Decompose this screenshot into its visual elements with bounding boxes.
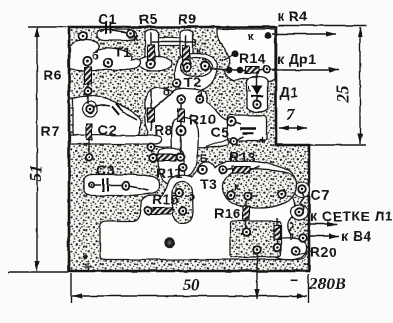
- wire R6 top lead: [87, 61, 89, 67]
- ext line top-left: [28, 26, 67, 28]
- resistor R10 body: [178, 109, 185, 122]
- leader line R20: [295, 251, 311, 255]
- svg-text:Б: Б: [200, 153, 208, 165]
- svg-text:к: к: [234, 181, 240, 193]
- pad R15 left: [145, 207, 153, 215]
- wire diode bottom lead: [256, 96, 258, 101]
- pad island S3 mid: [244, 192, 252, 200]
- pad R20 bottom: [273, 244, 281, 252]
- pad R11 right: [177, 153, 185, 161]
- pad R8 bottom area: [147, 143, 154, 150]
- wire R8 bottom lead: [150, 122, 152, 131]
- wire C3 left: [94, 184, 101, 186]
- pad R11 left: [149, 154, 157, 162]
- etched white around R11: [158, 149, 184, 185]
- wire link R5-R9 tops: [152, 41, 196, 43]
- ext line notch bottom: [310, 144, 366, 146]
- pad C3 right: [122, 182, 130, 190]
- svg-text:50: 50: [183, 275, 201, 294]
- right dim line 25: [359, 27, 361, 144]
- pad R6 bottom: [84, 87, 91, 94]
- pad R10 bottom ringed: [176, 126, 185, 135]
- pad bottom white oval: [292, 247, 300, 255]
- ext line bottom right vert: [308, 274, 310, 303]
- plus mark bottom-left: [84, 262, 93, 271]
- pad T2 base: [201, 62, 209, 70]
- pad island S3 right: [278, 190, 285, 197]
- wire C2 left: [92, 105, 110, 108]
- etched white surround of R9: [180, 30, 193, 58]
- svg-text:R20: R20: [310, 244, 337, 260]
- svg-text:к: к: [196, 45, 202, 57]
- resistor R5 body: [148, 45, 155, 60]
- leader line C5: [206, 138, 230, 147]
- svg-text:C3: C3: [96, 162, 115, 178]
- wire R13 right into island: [250, 166, 260, 170]
- pad R14 right: [263, 65, 270, 72]
- resistor R13 body: [232, 167, 250, 174]
- wire C9 top pad: [235, 122, 241, 124]
- etched white tall oval (R10 to T3 column): [172, 118, 199, 177]
- svg-text:к: к: [248, 31, 254, 43]
- svg-text:э: э: [197, 88, 203, 100]
- wire R14 row: [231, 69, 265, 70]
- wire R10 leads: [180, 101, 182, 127]
- svg-text:51: 51: [26, 165, 45, 182]
- ext line top-right: [278, 25, 366, 27]
- pad center dots: [82, 32, 305, 252]
- PCB board outline with stipple copper fill: [69, 27, 309, 271]
- pad island S2 top: [176, 189, 184, 197]
- svg-text:R16: R16: [214, 205, 241, 221]
- capacitor C1 plates: [106, 22, 111, 34]
- pads: white ring with dot: [79, 30, 307, 255]
- wire R10 pad down to R11 pad: [180, 134, 182, 153]
- svg-text:б: б: [92, 50, 99, 62]
- big etched white bottom region: [100, 161, 306, 259]
- etched white horizontal strip mid-left: [70, 135, 162, 144]
- pad C2 left: [86, 105, 94, 113]
- arrow k SETKE: [305, 223, 337, 225]
- resistor R20 body: [274, 225, 280, 239]
- svg-text:к В4: к В4: [341, 228, 372, 244]
- pad T1 e: [83, 57, 91, 65]
- wire pad k to R14 area: [224, 55, 233, 60]
- etched white oval right edge (C7 pad): [294, 183, 310, 198]
- svg-text:C2: C2: [98, 122, 117, 138]
- left dim line 51: [36, 28, 38, 271]
- svg-text:−: −: [290, 272, 299, 288]
- wire R14 to board edge: [268, 68, 276, 70]
- plus mark of C9: [259, 137, 265, 143]
- svg-text:R8: R8: [154, 122, 173, 138]
- wire R16 top lead: [245, 201, 247, 207]
- wires layer: [88, 30, 311, 272]
- pad kB4 right: [299, 234, 307, 242]
- pad wire-down: [253, 246, 261, 254]
- resistor R11 body: [157, 155, 176, 162]
- pad grid: [296, 208, 304, 216]
- ext line bottom-left: [8, 271, 68, 273]
- svg-text:C1: C1: [98, 11, 117, 27]
- pad C2 body bottom: [85, 153, 92, 160]
- etched white oval right edge (grid pad): [291, 205, 308, 220]
- etched white oval under R9: [179, 56, 202, 71]
- svg-text:25: 25: [333, 85, 352, 104]
- stippled rectangle island (R16/R20 area): [230, 221, 281, 257]
- etched white surround of R5: [145, 30, 159, 62]
- svg-text:б: б: [163, 86, 170, 98]
- etched white S-ribbon around T1: [70, 39, 141, 70]
- etched white region top-right (R14 area): [217, 29, 275, 82]
- pad C9 top: [227, 117, 235, 125]
- svg-text:T1: T1: [114, 44, 131, 60]
- etched white blob around T2: [174, 54, 217, 92]
- wire C1 right to pad: [112, 31, 127, 34]
- pad below R11: [179, 164, 186, 171]
- wire C1 left: [100, 30, 104, 32]
- wire R5 top lead: [150, 32, 152, 45]
- resistor R15 body: [152, 208, 173, 215]
- pad T2 k: [183, 64, 191, 72]
- svg-text:Д1: Д1: [280, 84, 299, 100]
- pad diode bottom: [253, 101, 261, 109]
- wire T2 collector to R14 row: [210, 68, 226, 70]
- pad top-left: [79, 32, 87, 40]
- svg-text:к Др1: к Др1: [277, 51, 317, 67]
- resistor R14 body: [246, 67, 259, 74]
- svg-text:к R4: к R4: [277, 8, 308, 24]
- pad R10 top row right: [196, 95, 204, 103]
- pad R13 left: [219, 166, 227, 174]
- pad C1 right: [127, 30, 135, 38]
- arrow k Dr1: [272, 69, 339, 71]
- kidney copper island (T3 collector): [222, 169, 296, 209]
- svg-text:280В: 280В: [308, 274, 346, 293]
- svg-text:T3: T3: [200, 176, 217, 192]
- ext line bottom left vert: [70, 273, 72, 303]
- wire diagonal R8 to T2: [152, 91, 174, 110]
- arrowheads: [34, 27, 362, 299]
- capacitor C9 plates: [240, 129, 256, 134]
- pad T1 k: [104, 59, 112, 67]
- dark pads: [226, 33, 272, 74]
- pad T3 base: [198, 166, 207, 175]
- wire R20 leads: [276, 218, 278, 244]
- small dark pad bottom-left: [83, 255, 88, 260]
- dimension drawing: [8, 26, 366, 304]
- bottom dim line 50: [72, 295, 307, 297]
- etched white strip under top edge (C1 area): [97, 30, 137, 41]
- tall stippled oval island below T3: [173, 182, 194, 224]
- wire R6 bottom lead: [87, 84, 89, 104]
- pad C9 bottom: [230, 137, 237, 144]
- svg-text:C5: C5: [211, 124, 230, 140]
- svg-text:к СЕТКЕ Л1: к СЕТКЕ Л1: [310, 208, 393, 224]
- svg-text:R7: R7: [41, 123, 60, 139]
- etched white band around C2: [73, 96, 141, 136]
- wire C2 right: [122, 112, 137, 120]
- dim numbers: [26, 85, 352, 294]
- pad T2 e: [173, 79, 181, 87]
- pad R10 top row left: [177, 95, 185, 103]
- etched white oval bottom-right (R20 pads): [271, 238, 306, 260]
- etched white region around R8 R10 C5 labels: [145, 88, 228, 148]
- svg-text:R13: R13: [229, 149, 256, 165]
- arrow k R4: [272, 33, 336, 35]
- diode D1: [252, 85, 263, 95]
- mounting hole: [164, 238, 174, 248]
- wire C3 right to pad: [109, 184, 123, 186]
- squiggle lower right: [289, 222, 293, 240]
- pad island S3 left: [227, 191, 235, 199]
- resistor R16 body: [243, 206, 250, 220]
- pad island S2 bottom: [179, 207, 187, 215]
- pad R16 bottom: [243, 229, 251, 237]
- arrow k B4: [308, 235, 339, 237]
- T2 transistor body island: [180, 58, 212, 77]
- pad R5 bottom: [147, 60, 155, 68]
- svg-text:C7: C7: [311, 187, 330, 203]
- pad R9 bottom: [182, 59, 190, 67]
- etched white oval under R5: [139, 56, 172, 71]
- pad C3 left small: [89, 182, 94, 187]
- squiggle jumper C7: [300, 194, 304, 212]
- wire R9 top lead: [185, 35, 187, 46]
- resistor R8 body: [148, 108, 155, 122]
- etched white channel linking R5-R9 tops: [150, 38, 196, 47]
- etched white capsule around diode pad: [247, 77, 268, 113]
- wire diode top lead: [256, 70, 258, 85]
- svg-text:R15: R15: [152, 191, 179, 207]
- resistor R6 body: [85, 67, 92, 84]
- wire C3 pad to R11 area: [129, 186, 148, 190]
- svg-text:R14: R14: [239, 50, 266, 66]
- stippled copper islands inside white areas: [173, 58, 297, 258]
- svg-text:R6: R6: [43, 67, 62, 83]
- svg-text:R5: R5: [139, 11, 158, 27]
- etched white halo around C2 left pad: [83, 102, 98, 117]
- wire C9 bottom pad: [237, 137, 244, 140]
- etched white C9 rectangle: [228, 115, 267, 141]
- wire down from board: [256, 272, 258, 299]
- pad C7: [298, 186, 306, 194]
- capacitor C2 body (vertical): [86, 124, 92, 140]
- capacitor C3 plates: [103, 179, 108, 192]
- wire R13 left: [226, 169, 232, 170]
- svg-text:R9: R9: [178, 11, 197, 27]
- wire R16 bottom lead: [245, 219, 247, 229]
- etched white channel around C3: [84, 174, 160, 195]
- svg-text:э: э: [189, 191, 195, 203]
- wire R8 top lead: [150, 90, 152, 108]
- svg-text:к: к: [133, 32, 139, 44]
- svg-text:R11: R11: [156, 165, 182, 181]
- resistor R9 body: [183, 46, 190, 60]
- dim 7 arrow line: [279, 127, 307, 129]
- capacitor C2 plates (diagonal): [112, 103, 123, 115]
- wire C2 body bottom lead: [88, 140, 90, 154]
- wire from pad down exiting board bottom: [256, 253, 258, 272]
